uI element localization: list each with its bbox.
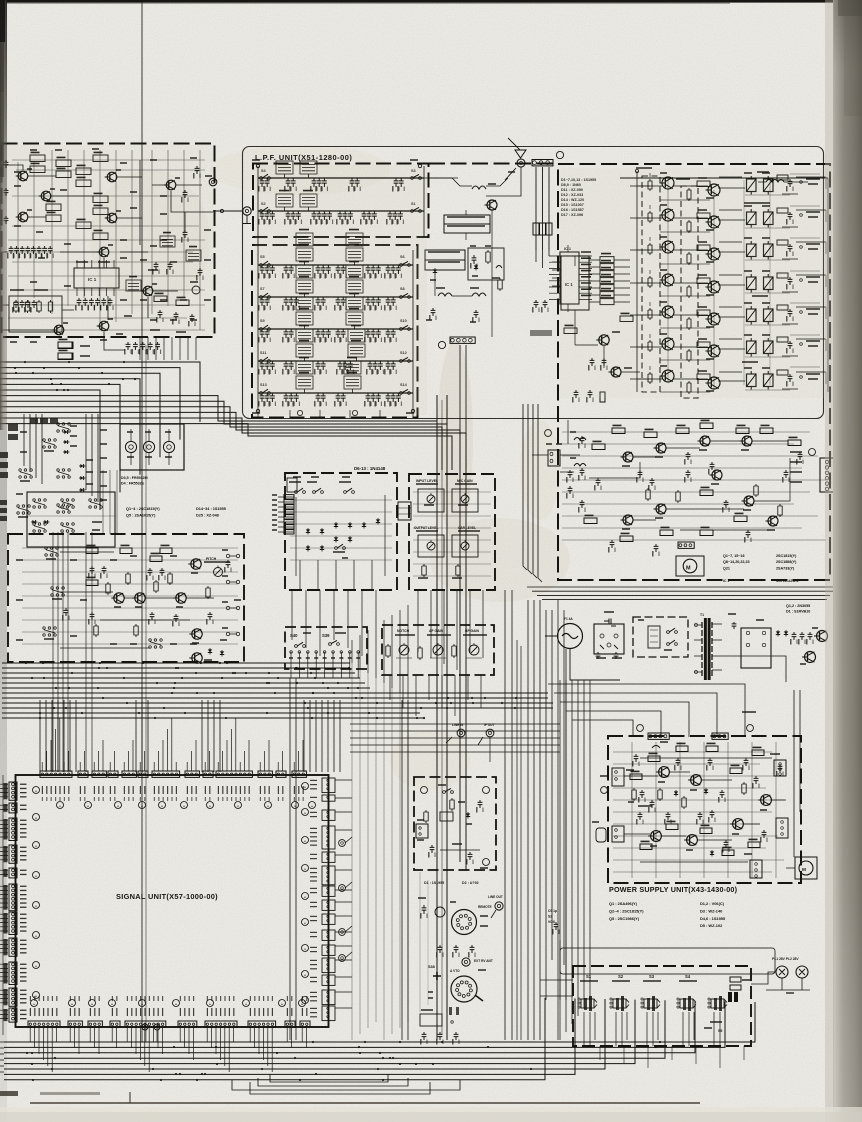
svg-text:MIC GAIN: MIC GAIN bbox=[457, 479, 473, 483]
svg-text:POWER SUPPLY UNIT(X43-1430-00): POWER SUPPLY UNIT(X43-1430-00) bbox=[609, 885, 738, 894]
svg-text:M: M bbox=[802, 867, 806, 873]
svg-text:Q2~4 : 2SC1815(Y): Q2~4 : 2SC1815(Y) bbox=[609, 908, 644, 913]
svg-text:2SC1815(Y): 2SC1815(Y) bbox=[776, 554, 797, 558]
svg-text:D25 : XZ-048: D25 : XZ-048 bbox=[196, 513, 219, 517]
svg-text:D3,5 : FR5532M: D3,5 : FR5532M bbox=[121, 476, 148, 480]
svg-text:D1,2 : V06(C): D1,2 : V06(C) bbox=[700, 901, 725, 906]
svg-text:M: M bbox=[686, 566, 691, 572]
svg-text:2SC1886(Y): 2SC1886(Y) bbox=[776, 560, 797, 564]
svg-text:D3 : WZ-140: D3 : WZ-140 bbox=[700, 908, 722, 913]
svg-text:Q1 : 2SA496(Y): Q1 : 2SA496(Y) bbox=[609, 901, 638, 906]
svg-text:Q5 : 2SC1986(Y): Q5 : 2SC1986(Y) bbox=[609, 916, 640, 921]
svg-text:D4 : FR5532E: D4 : FR5532E bbox=[121, 482, 145, 486]
svg-text:S38: S38 bbox=[428, 965, 435, 969]
svg-text:D1 : 1S1955: D1 : 1S1955 bbox=[424, 881, 444, 885]
svg-text:Q1~4 : 2SC1815(Y): Q1~4 : 2SC1815(Y) bbox=[126, 507, 160, 511]
svg-text:PITCH: PITCH bbox=[206, 557, 217, 561]
svg-text:S2: S2 bbox=[618, 974, 624, 979]
svg-text:D6-13 : 1N4148: D6-13 : 1N4148 bbox=[354, 466, 386, 471]
svg-text:Q8~14,20,22,23: Q8~14,20,22,23 bbox=[723, 560, 750, 564]
svg-text:SIGNAL UNIT(X57-1000-00): SIGNAL UNIT(X57-1000-00) bbox=[116, 892, 218, 901]
svg-text:D1 : S1RVB10: D1 : S1RVB10 bbox=[786, 610, 810, 614]
svg-text:T1: T1 bbox=[700, 613, 704, 617]
svg-text:LINE IN: LINE IN bbox=[452, 723, 464, 727]
svg-text:Q1~7, 15~16: Q1~7, 15~16 bbox=[723, 554, 745, 558]
svg-text:IC 1: IC 1 bbox=[723, 579, 729, 583]
svg-text:F1 4A: F1 4A bbox=[564, 617, 573, 621]
svg-text:D2 : U?92: D2 : U?92 bbox=[462, 881, 479, 885]
svg-text:LINE OUT: LINE OUT bbox=[488, 895, 503, 899]
svg-text:S4: S4 bbox=[685, 974, 691, 979]
svg-text:A VTO: A VTO bbox=[450, 969, 460, 973]
svg-text:INPUT LEVEL: INPUT LEVEL bbox=[416, 479, 438, 483]
svg-text:2SA733(Y): 2SA733(Y) bbox=[776, 566, 795, 570]
svg-text:S1: S1 bbox=[586, 974, 592, 979]
svg-text:S2: S2 bbox=[548, 914, 552, 918]
svg-text:RF GAIN: RF GAIN bbox=[465, 629, 479, 633]
svg-text:S40: S40 bbox=[290, 633, 298, 638]
svg-text:S39: S39 bbox=[322, 633, 330, 638]
svg-text:S3: S3 bbox=[649, 974, 655, 979]
svg-text:Q21: Q21 bbox=[723, 566, 730, 570]
svg-text:REMOTE: REMOTE bbox=[478, 905, 492, 909]
svg-text:D14~34 : 1S1555: D14~34 : 1S1555 bbox=[196, 507, 226, 511]
svg-text:Q1,2 : 2N3055: Q1,2 : 2N3055 bbox=[786, 604, 810, 608]
svg-text:Q5 : 2SA1015(Y): Q5 : 2SA1015(Y) bbox=[126, 513, 156, 517]
svg-text:EXT RV ANT: EXT RV ANT bbox=[474, 959, 493, 963]
svg-text:D4,6 : 1S1955: D4,6 : 1S1955 bbox=[700, 916, 726, 921]
svg-text:PL1 28V PL2 28V: PL1 28V PL2 28V bbox=[772, 957, 799, 961]
svg-text:IF OUT: IF OUT bbox=[484, 723, 494, 727]
svg-text:D5 : WZ-102: D5 : WZ-102 bbox=[700, 923, 723, 928]
svg-text:M5761S42W-6: M5761S42W-6 bbox=[776, 579, 799, 583]
svg-text:C9 1μ: C9 1μ bbox=[548, 909, 557, 913]
